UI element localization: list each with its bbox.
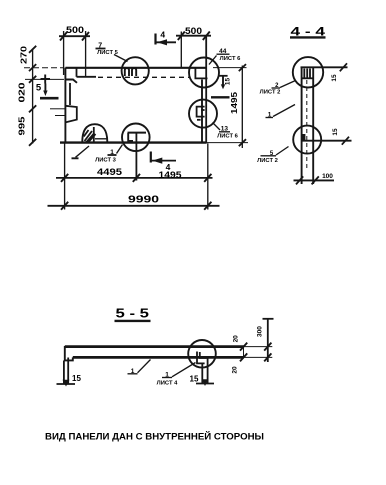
left edge upper key — [65, 80, 77, 83]
channel left end cap — [65, 346, 73, 360]
svg-text:20: 20 — [232, 366, 239, 374]
title underline — [115, 320, 151, 322]
left dimension chain vertical line — [32, 49, 34, 144]
dimension 500 top-right line — [176, 35, 211, 37]
panel top step riser — [76, 69, 78, 77]
svg-text:ВИД ПАНЕЛИ ДАН С ВНУТРЕННЕЙ СТ: ВИД ПАНЕЛИ ДАН С ВНУТРЕННЕЙ СТОРОНЫ — [45, 431, 264, 443]
mini dimension 15 right of C2 — [211, 76, 232, 98]
svg-text:4: 4 — [160, 30, 165, 40]
anchor loop 2 in C1 — [132, 68, 136, 76]
detail circle C3 right edge — [189, 100, 217, 128]
anchor loop 1 in C1 — [125, 68, 129, 76]
panel inner flange dashed line — [98, 76, 190, 78]
svg-text:1495: 1495 — [229, 92, 239, 114]
right dimension 1495 vertical line — [241, 66, 243, 149]
left edge lower key — [65, 106, 76, 123]
tick below hook in C3 — [197, 119, 201, 121]
svg-text:15: 15 — [72, 374, 81, 383]
tick on D2 line — [342, 137, 349, 145]
svg-text:500: 500 — [66, 25, 84, 35]
tick bottom left — [296, 176, 303, 184]
svg-text:ЛИСТ 2: ЛИСТ 2 — [260, 90, 281, 96]
panel top edge — [65, 67, 206, 69]
svg-text:15: 15 — [225, 78, 232, 86]
right 15 dim extension lines — [202, 358, 207, 384]
top cap inner verticals — [304, 69, 310, 79]
svg-text:4495: 4495 — [97, 167, 122, 177]
svg-text:300: 300 — [257, 326, 264, 337]
detail circle C2 top-right corner — [189, 58, 219, 88]
title underline — [290, 36, 326, 38]
detail circle D2 lower section — [293, 126, 321, 154]
left extension dashed y=67.7 — [24, 67, 64, 69]
left extension y=79.4 — [25, 78, 64, 80]
horizontal line through D2 extending right — [302, 140, 352, 142]
tick on top line right — [340, 63, 347, 71]
svg-text:ЛИСТ 4: ЛИСТ 4 — [157, 380, 178, 386]
tick on dimA right — [204, 174, 211, 182]
left 15 dim arrow — [63, 380, 70, 387]
section marker 4 top — [156, 30, 177, 46]
dome inner vertical — [93, 127, 95, 142]
right 15 dim arrow — [202, 379, 209, 386]
bottom extension x=136.4 — [135, 133, 137, 181]
label 1 / ЛИСТ 4 in 5-5 — [157, 363, 196, 387]
tick bottom right — [312, 176, 319, 184]
label 1 / ЛИСТ 3 — [72, 145, 123, 164]
hook plate in C3 — [197, 107, 205, 117]
panel right edge outer — [205, 36, 207, 144]
dome chord — [95, 138, 107, 140]
angle plate in E — [197, 352, 205, 364]
svg-text:500: 500 — [185, 26, 202, 36]
panel left edge — [64, 68, 66, 143]
dimension 500 top-left tick left — [60, 32, 67, 41]
corner bracket in C2 — [195, 69, 208, 79]
svg-text:15: 15 — [331, 74, 338, 82]
panel bottom edge — [60, 141, 207, 143]
channel bottom line — [73, 356, 244, 359]
label 7 / ЛИСТ 5 — [96, 43, 128, 62]
label 1 left leader in 5-5 — [128, 360, 151, 375]
T anchor in C4 — [128, 132, 147, 134]
svg-text:ЛИСТ 6: ЛИСТ 6 — [217, 134, 238, 140]
panel inner flange line solid part — [77, 76, 97, 78]
channel bottom line thin extension — [244, 356, 273, 358]
left chain tick y=49 — [29, 46, 36, 53]
strip right wall — [312, 68, 314, 185]
label 5 / ЛИСТ 2 lower — [257, 147, 288, 165]
strip hidden dashed centerline — [306, 80, 308, 170]
svg-text:20: 20 — [232, 335, 239, 343]
300 dim ticks at crossings — [264, 343, 271, 351]
detail circle D1 top of section — [293, 57, 323, 87]
dimension line 9990 — [48, 205, 220, 207]
detail circle E in 5-5 — [188, 340, 216, 368]
label 2 / ЛИСТ 2 upper — [260, 81, 296, 96]
dome hatching — [84, 130, 96, 142]
dimension 500 top-right tick right — [203, 32, 210, 41]
section marker 4 bottom — [151, 152, 176, 173]
svg-text:15: 15 — [332, 128, 339, 136]
right dim tick bottom — [239, 139, 246, 146]
300 dimension vertical line — [267, 318, 269, 362]
dome opening at bottom edge — [82, 124, 107, 142]
svg-text:5 - 5: 5 - 5 — [116, 306, 150, 321]
tick on dimB left — [61, 202, 68, 210]
tick on dimA middle — [133, 174, 140, 182]
300 dim top tick — [263, 318, 274, 320]
svg-text:995: 995 — [17, 116, 27, 135]
panel right edge inner — [201, 80, 203, 143]
channel top line — [65, 345, 244, 348]
svg-text:ЛИСТ 6: ЛИСТ 6 — [220, 56, 241, 62]
ticks at x=243.5 on both channel lines — [240, 343, 247, 351]
extension line x=181.3 — [180, 32, 182, 69]
section 4-4 bottom dimension line — [294, 179, 335, 181]
detail circle C4 on bottom edge — [122, 124, 150, 152]
channel top line thin extension — [244, 346, 273, 348]
tick on dimB right — [204, 202, 211, 210]
svg-text:ЛИСТ 2: ЛИСТ 2 — [257, 158, 278, 164]
right dim bottom extension — [207, 142, 249, 144]
dimension 500 top-right tick left — [178, 32, 185, 41]
left extension y=108.8 — [50, 108, 65, 110]
short vertical between ticks — [243, 347, 245, 358]
label 1 middle — [266, 105, 296, 119]
right dim tick top — [239, 64, 246, 71]
top cap inner horizontal — [302, 77, 314, 79]
svg-text:9990: 9990 — [128, 194, 159, 206]
detail circle C1 on top edge — [122, 57, 149, 84]
dimension 500 top-left line — [59, 35, 90, 37]
strip left wall — [301, 68, 303, 185]
strip top cap line extending right — [301, 66, 348, 68]
svg-text:1495: 1495 — [159, 170, 182, 180]
tick on dimA left — [61, 174, 68, 182]
weld plate in D2 — [302, 134, 306, 141]
svg-text:270: 270 — [19, 46, 29, 64]
extension line x=85.6 — [85, 31, 87, 77]
left chain tick y=108.8 — [29, 105, 36, 112]
svg-text:020: 020 — [17, 82, 27, 102]
left edge inner vertical — [69, 83, 71, 105]
bottom extension x=64.6 — [64, 143, 66, 210]
left extension y=115.5 — [55, 115, 65, 117]
left chain tick y=67.6 — [29, 64, 36, 71]
section marker 5 — [36, 75, 59, 99]
right dim top extension — [213, 67, 247, 69]
left chain tick y=142.3 — [29, 139, 36, 146]
svg-text:ЛИСТ 3: ЛИСТ 3 — [95, 157, 116, 163]
left 15 dim extension lines — [64, 358, 68, 385]
svg-text:100: 100 — [322, 173, 333, 180]
svg-text:15: 15 — [190, 375, 199, 384]
svg-text:5: 5 — [36, 83, 42, 94]
bottom extension x=207.8 — [207, 143, 209, 209]
extension line x=63.6 — [63, 31, 65, 75]
dimension line 4495/1495 — [56, 177, 213, 179]
label 44 / ЛИСТ 6 — [209, 48, 241, 65]
left chain tick y=79.3 — [29, 76, 36, 83]
dimension 500 top-left tick right — [82, 32, 89, 41]
label 13 / ЛИСТ 6 — [213, 123, 239, 140]
